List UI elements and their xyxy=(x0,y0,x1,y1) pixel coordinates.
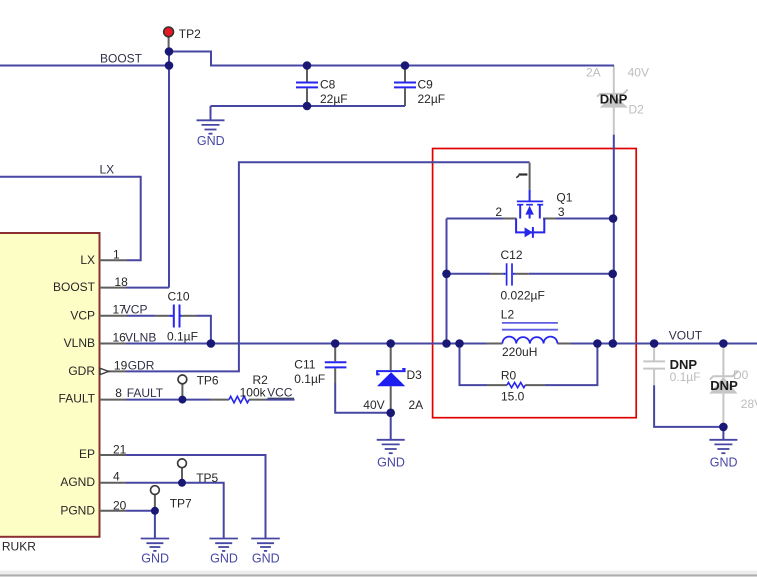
svg-text:VCP: VCP xyxy=(70,308,95,322)
svg-text:19: 19 xyxy=(114,358,128,372)
svg-text:28V: 28V xyxy=(741,397,757,411)
svg-text:C11: C11 xyxy=(294,358,315,372)
svg-text:BOOST: BOOST xyxy=(53,280,96,294)
svg-text:20: 20 xyxy=(113,498,127,512)
svg-text:40V: 40V xyxy=(628,65,649,79)
svg-text:GND: GND xyxy=(252,551,280,565)
svg-text:R0: R0 xyxy=(501,368,517,382)
svg-text:GND: GND xyxy=(197,134,225,148)
svg-text:GND: GND xyxy=(210,551,238,565)
svg-text:21: 21 xyxy=(113,442,127,456)
svg-text:AGND: AGND xyxy=(60,475,95,489)
svg-text:C8: C8 xyxy=(320,78,336,92)
svg-text:100k: 100k xyxy=(240,385,267,399)
svg-text:VOUT: VOUT xyxy=(669,329,703,343)
svg-text:D3: D3 xyxy=(407,368,423,382)
svg-text:22µF: 22µF xyxy=(320,92,348,106)
svg-text:18: 18 xyxy=(115,275,129,289)
svg-text:LX: LX xyxy=(100,162,115,176)
svg-text:TP2: TP2 xyxy=(179,27,201,41)
svg-text:40V: 40V xyxy=(363,398,384,412)
svg-text:TP7: TP7 xyxy=(170,497,192,511)
svg-text:VCC: VCC xyxy=(267,385,293,399)
svg-text:2A: 2A xyxy=(586,65,601,79)
svg-text:GDR: GDR xyxy=(68,364,95,378)
svg-text:D2: D2 xyxy=(629,103,645,117)
svg-text:DNP: DNP xyxy=(600,92,628,107)
svg-text:DNP: DNP xyxy=(710,378,738,393)
svg-text:0.1µF: 0.1µF xyxy=(294,372,325,386)
svg-text:2: 2 xyxy=(495,205,502,219)
svg-text:TP6: TP6 xyxy=(197,373,219,387)
svg-text:L2: L2 xyxy=(501,308,515,322)
svg-text:BOOST: BOOST xyxy=(100,52,143,66)
svg-text:2A: 2A xyxy=(409,398,424,412)
svg-text:8: 8 xyxy=(115,386,122,400)
svg-text:0.1µF: 0.1µF xyxy=(167,330,198,344)
svg-text:GDR: GDR xyxy=(128,358,155,372)
svg-text:TP5: TP5 xyxy=(196,471,218,485)
svg-text:DNP: DNP xyxy=(670,357,698,372)
svg-text:C9: C9 xyxy=(418,78,434,92)
svg-text:4: 4 xyxy=(113,470,120,484)
svg-text:EP: EP xyxy=(79,447,95,461)
svg-text:PGND: PGND xyxy=(60,504,95,518)
svg-text:VLNB: VLNB xyxy=(64,336,95,350)
svg-text:RUKR: RUKR xyxy=(2,540,36,554)
svg-text:22µF: 22µF xyxy=(418,92,446,106)
svg-text:FAULT: FAULT xyxy=(127,386,164,400)
svg-text:GND: GND xyxy=(377,455,405,469)
svg-text:VCP: VCP xyxy=(123,302,148,316)
svg-text:0.022µF: 0.022µF xyxy=(501,288,545,302)
svg-text:VLNB: VLNB xyxy=(125,331,156,345)
svg-text:C12: C12 xyxy=(501,248,523,262)
svg-text:3: 3 xyxy=(558,205,565,219)
svg-text:FAULT: FAULT xyxy=(59,392,96,406)
svg-text:220uH: 220uH xyxy=(502,345,537,359)
svg-text:Q1: Q1 xyxy=(556,191,572,205)
svg-text:C10: C10 xyxy=(168,290,190,304)
svg-text:15.0: 15.0 xyxy=(501,390,525,404)
svg-text:1: 1 xyxy=(113,247,120,261)
svg-text:0.1µF: 0.1µF xyxy=(670,370,701,384)
svg-text:GND: GND xyxy=(710,455,738,469)
svg-text:LX: LX xyxy=(80,253,95,267)
svg-text:GND: GND xyxy=(141,551,169,565)
